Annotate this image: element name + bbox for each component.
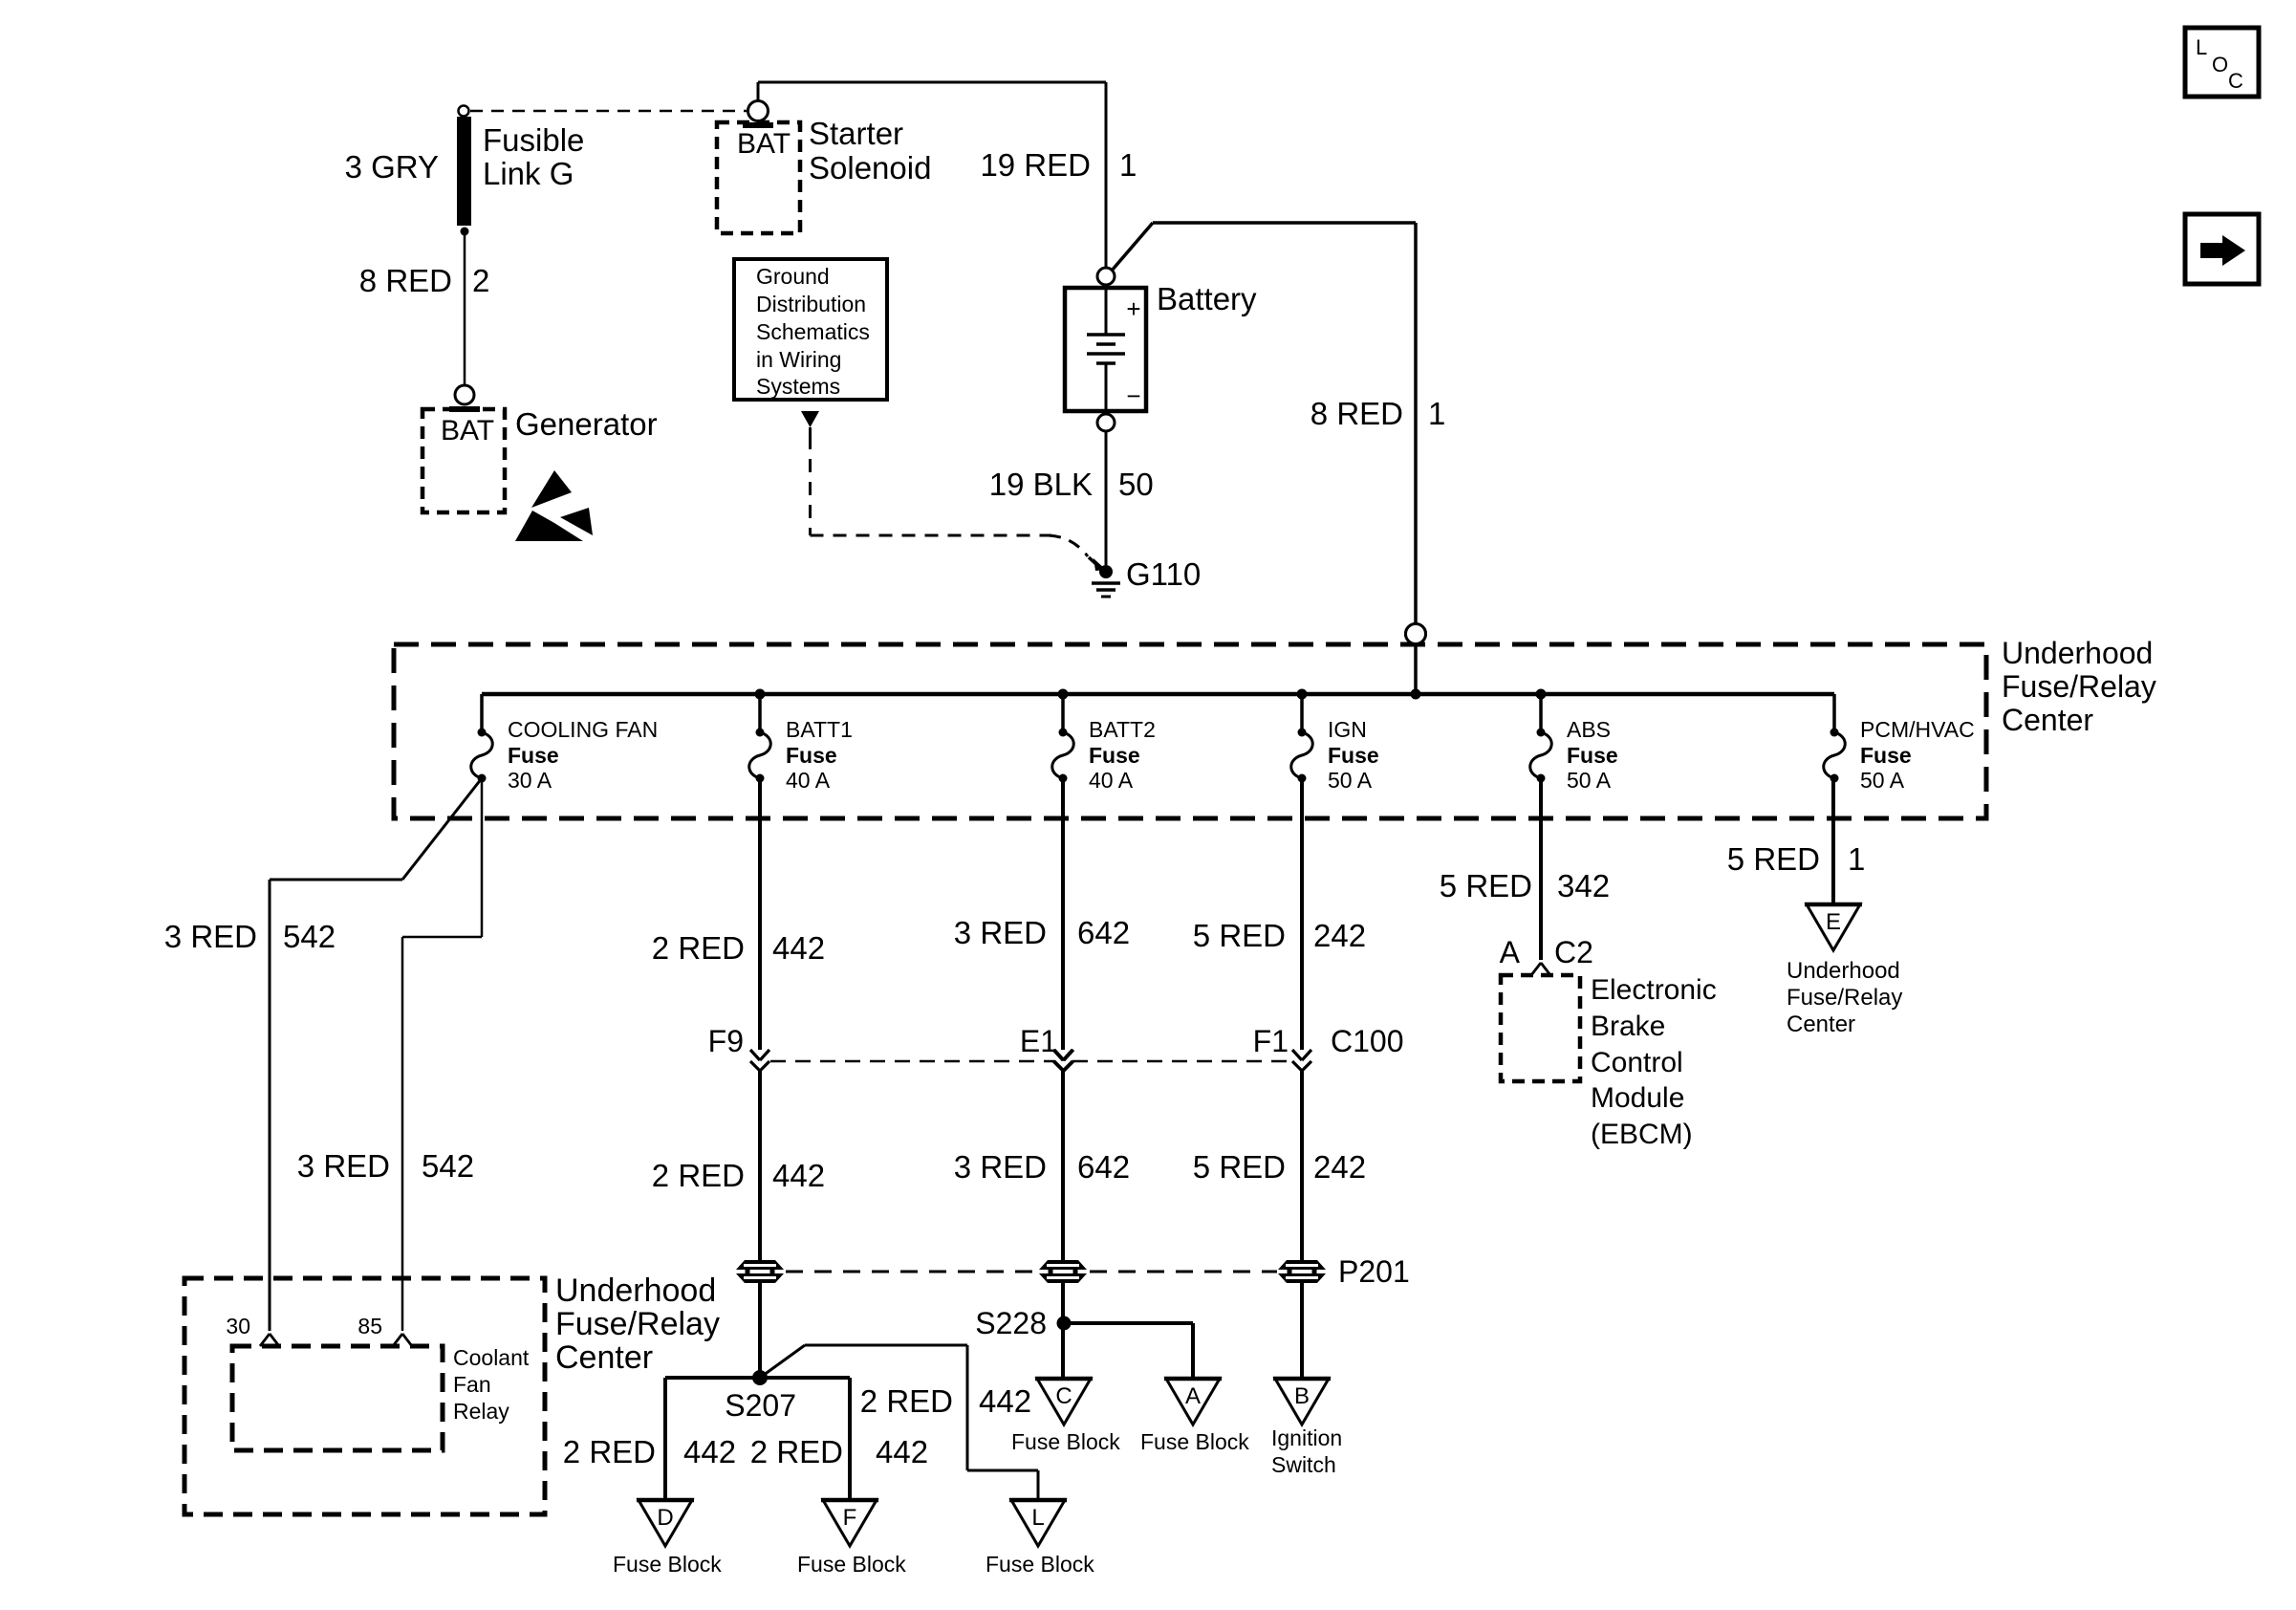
svg-text:50: 50 (1118, 467, 1154, 502)
svg-text:Center: Center (1787, 1012, 1855, 1037)
svg-text:5 RED: 5 RED (1727, 841, 1820, 877)
svg-text:442: 442 (683, 1434, 736, 1469)
svg-text:5 RED: 5 RED (1193, 1149, 1286, 1185)
svg-text:S228: S228 (975, 1306, 1047, 1340)
svg-text:G110: G110 (1126, 556, 1201, 592)
svg-text:Fuse/Relay: Fuse/Relay (555, 1306, 720, 1342)
svg-text:IGN: IGN (1328, 717, 1367, 742)
svg-text:19 RED: 19 RED (980, 147, 1091, 183)
svg-text:19 BLK: 19 BLK (989, 467, 1093, 502)
svg-text:5 RED: 5 RED (1440, 868, 1532, 903)
svg-text:2 RED: 2 RED (652, 930, 745, 966)
svg-text:2 RED: 2 RED (652, 1158, 745, 1193)
svg-text:B: B (1294, 1383, 1310, 1409)
svg-text:−: − (1126, 381, 1140, 410)
svg-text:Link G: Link G (483, 156, 574, 191)
svg-text:Control: Control (1591, 1047, 1683, 1078)
svg-text:542: 542 (283, 919, 336, 954)
svg-text:8 RED: 8 RED (1310, 396, 1403, 431)
svg-text:2 RED: 2 RED (563, 1434, 656, 1469)
svg-text:3 RED: 3 RED (954, 1149, 1047, 1185)
svg-text:8 RED: 8 RED (359, 263, 452, 298)
svg-text:PCM/HVAC: PCM/HVAC (1860, 717, 1975, 742)
svg-text:542: 542 (422, 1148, 474, 1184)
svg-text:Center: Center (2002, 703, 2093, 737)
svg-text:Fuse: Fuse (1860, 743, 1912, 768)
svg-text:3 RED: 3 RED (297, 1148, 390, 1184)
svg-text:5 RED: 5 RED (1193, 918, 1286, 953)
svg-text:BAT: BAT (441, 415, 494, 446)
svg-text:Fusible: Fusible (483, 122, 584, 158)
svg-text:Switch: Switch (1271, 1452, 1336, 1477)
svg-text:40 A: 40 A (1089, 768, 1134, 793)
svg-text:642: 642 (1077, 915, 1130, 950)
svg-text:Fuse: Fuse (1567, 743, 1618, 768)
svg-text:Fuse/Relay: Fuse/Relay (2002, 669, 2156, 704)
svg-text:Fuse Block: Fuse Block (797, 1552, 906, 1577)
svg-text:Schematics: Schematics (756, 319, 870, 344)
svg-text:Ignition: Ignition (1271, 1425, 1342, 1450)
svg-text:F: F (843, 1505, 857, 1531)
svg-text:30: 30 (226, 1314, 250, 1338)
svg-text:242: 242 (1313, 1149, 1366, 1185)
svg-text:3 RED: 3 RED (954, 915, 1047, 950)
svg-text:442: 442 (979, 1383, 1031, 1419)
svg-text:P201: P201 (1338, 1254, 1410, 1289)
svg-text:Systems: Systems (756, 374, 840, 399)
svg-text:1: 1 (1848, 841, 1865, 877)
svg-text:Underhood: Underhood (2002, 636, 2153, 670)
svg-text:D: D (657, 1505, 673, 1531)
svg-text:442: 442 (876, 1434, 928, 1469)
svg-text:2 RED: 2 RED (750, 1434, 843, 1469)
svg-text:in Wiring: in Wiring (756, 347, 841, 372)
svg-text:Ground: Ground (756, 264, 830, 289)
svg-text:Brake: Brake (1591, 1011, 1665, 1042)
svg-text:L: L (1031, 1505, 1044, 1531)
svg-text:Fuse Block: Fuse Block (986, 1552, 1094, 1577)
svg-text:Underhood: Underhood (555, 1273, 716, 1309)
svg-text:Generator: Generator (515, 406, 658, 442)
svg-text:Fuse Block: Fuse Block (1011, 1429, 1120, 1454)
svg-text:Fuse/Relay: Fuse/Relay (1787, 985, 1902, 1011)
svg-text:30 A: 30 A (508, 768, 552, 793)
svg-text:Fuse Block: Fuse Block (613, 1552, 722, 1577)
svg-text:50 A: 50 A (1328, 768, 1373, 793)
svg-text:2: 2 (472, 263, 489, 298)
svg-text:50 A: 50 A (1567, 768, 1612, 793)
svg-text:Fuse: Fuse (1089, 743, 1140, 768)
svg-text:C2: C2 (1554, 935, 1593, 969)
svg-text:Underhood: Underhood (1787, 958, 1900, 984)
svg-text:C100: C100 (1331, 1024, 1404, 1058)
svg-text:COOLING FAN: COOLING FAN (508, 717, 658, 742)
svg-text:ABS: ABS (1567, 717, 1611, 742)
svg-text:2 RED: 2 RED (860, 1383, 953, 1419)
svg-text:Fuse: Fuse (786, 743, 837, 768)
svg-text:Module: Module (1591, 1082, 1684, 1114)
svg-text:342: 342 (1557, 868, 1610, 903)
svg-text:1: 1 (1119, 147, 1137, 183)
svg-text:Fuse: Fuse (1328, 743, 1379, 768)
svg-text:242: 242 (1313, 918, 1366, 953)
svg-text:O: O (2212, 53, 2228, 76)
svg-text:3 GRY: 3 GRY (345, 149, 439, 185)
svg-text:+: + (1126, 294, 1140, 323)
svg-text:BAT: BAT (737, 128, 791, 160)
svg-text:442: 442 (772, 930, 825, 966)
svg-text:442: 442 (772, 1158, 825, 1193)
svg-text:Starter: Starter (809, 116, 903, 151)
svg-text:C: C (1055, 1383, 1072, 1409)
svg-text:50 A: 50 A (1860, 768, 1905, 793)
svg-text:(EBCM): (EBCM) (1591, 1119, 1693, 1150)
svg-text:Battery: Battery (1157, 281, 1257, 316)
svg-text:40 A: 40 A (786, 768, 831, 793)
svg-text:1: 1 (1428, 396, 1445, 431)
svg-text:F1: F1 (1253, 1024, 1289, 1058)
svg-text:E: E (1826, 909, 1841, 935)
svg-text:Distribution: Distribution (756, 292, 866, 316)
svg-text:Fuse: Fuse (508, 743, 559, 768)
svg-text:BATT2: BATT2 (1089, 717, 1156, 742)
svg-text:Relay: Relay (453, 1399, 509, 1424)
svg-text:S207: S207 (725, 1388, 796, 1423)
svg-text:BATT1: BATT1 (786, 717, 853, 742)
svg-text:642: 642 (1077, 1149, 1130, 1185)
svg-text:C: C (2228, 69, 2243, 93)
svg-text:A: A (1500, 935, 1521, 969)
svg-text:F9: F9 (708, 1024, 744, 1058)
svg-text:Fan: Fan (453, 1372, 491, 1397)
svg-text:L: L (2196, 35, 2207, 59)
svg-text:E1: E1 (1020, 1024, 1057, 1058)
svg-text:Center: Center (555, 1339, 653, 1376)
svg-text:A: A (1185, 1383, 1201, 1409)
svg-text:Electronic: Electronic (1591, 974, 1717, 1006)
svg-text:85: 85 (357, 1314, 382, 1338)
svg-text:3 RED: 3 RED (164, 919, 257, 954)
svg-text:Coolant: Coolant (453, 1345, 530, 1370)
svg-text:Fuse Block: Fuse Block (1140, 1429, 1249, 1454)
svg-text:Solenoid: Solenoid (809, 150, 931, 185)
